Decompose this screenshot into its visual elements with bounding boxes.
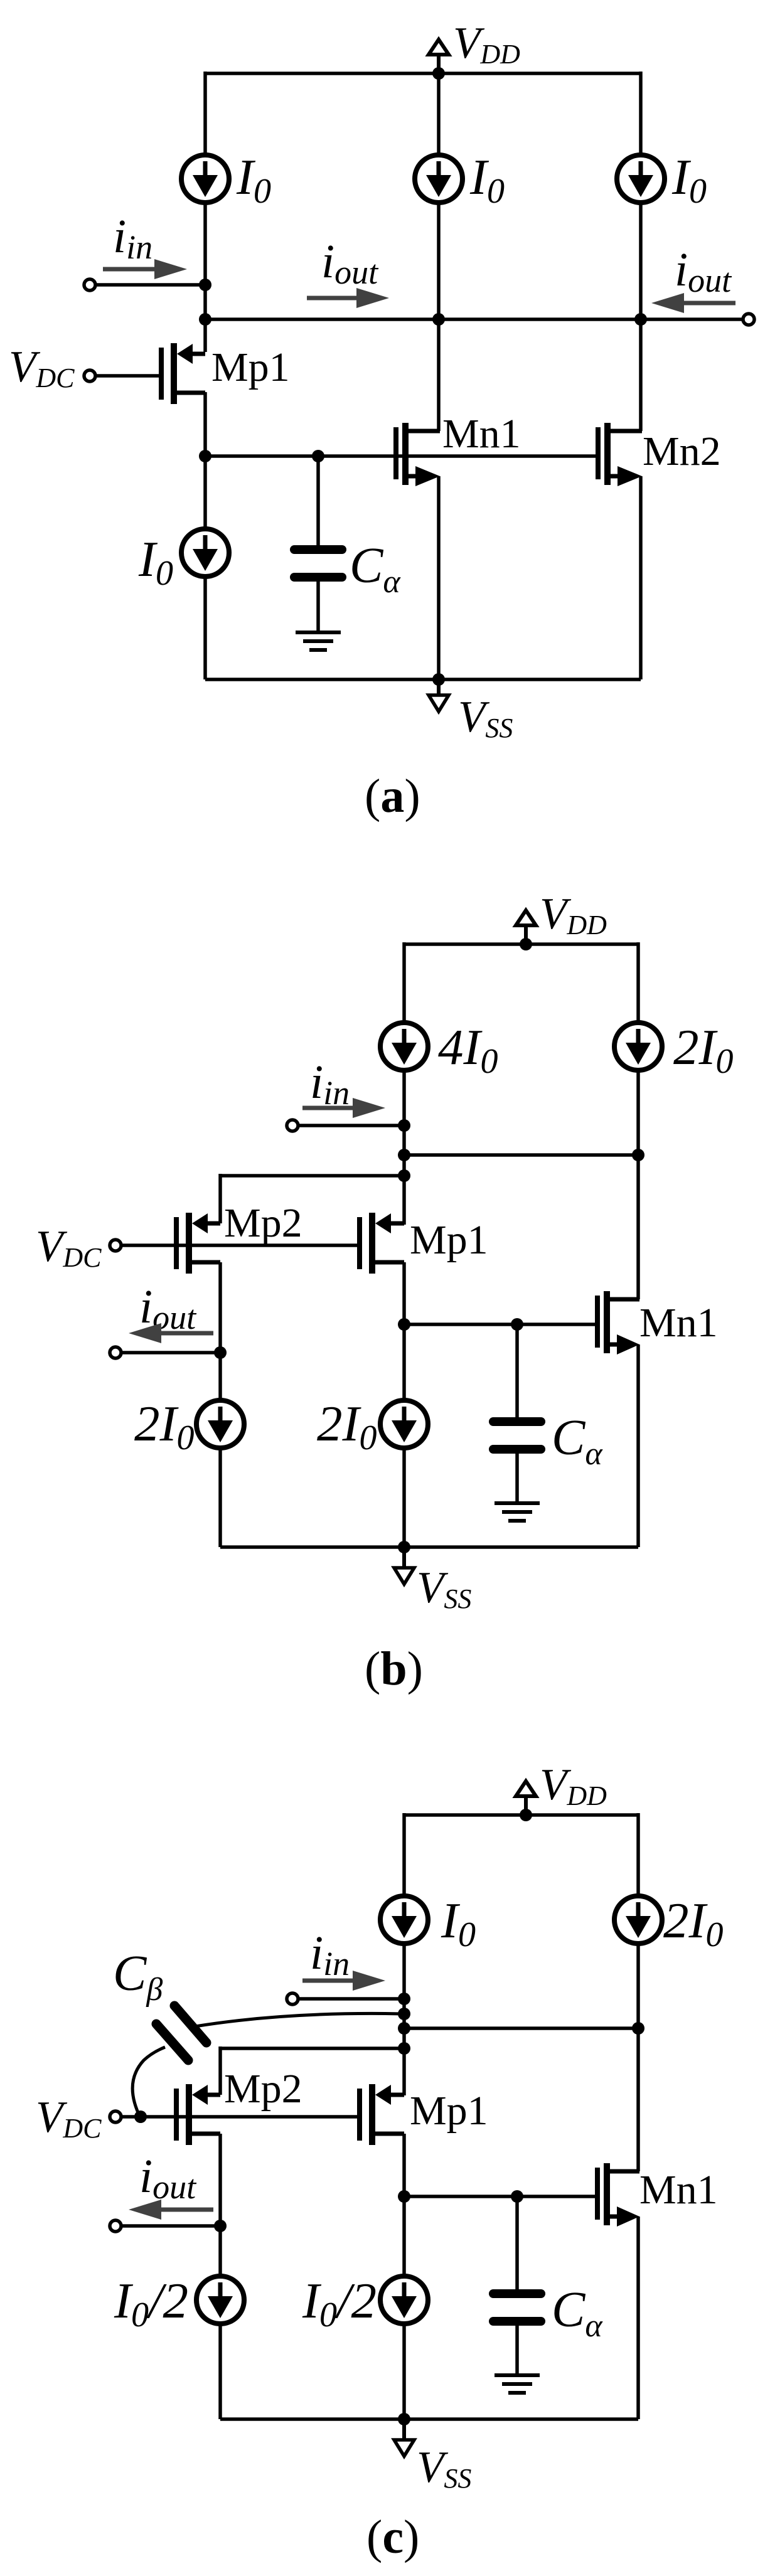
svg-text:Cα: Cα [350, 538, 401, 600]
node input (a) [199, 279, 211, 291]
wire Mp1 drain down (c) [402, 2134, 406, 2276]
wire C_beta to node (c) [195, 2013, 404, 2026]
svg-text:Cα: Cα [552, 1410, 603, 1472]
current arrow i_out mid (a) [307, 288, 389, 308]
wire gate row (a) [205, 454, 596, 458]
node VDC (c) [134, 2110, 147, 2123]
input terminal (c) [287, 1993, 298, 2004]
output terminal (c) [110, 2220, 121, 2232]
node VSS (a) [432, 673, 445, 686]
transistor Mn1 (a) [396, 423, 440, 486]
svg-text:I0/2: I0/2 [114, 2272, 188, 2334]
current source I0 bottom (a) [181, 529, 229, 577]
wire input (a) [95, 283, 205, 287]
label Mn1 (b) [639, 1300, 718, 1346]
svg-text:iout: iout [139, 2150, 197, 2206]
wire C_beta curve to VDC (c) [132, 2047, 165, 2118]
current source 2I0 (c) [614, 1896, 662, 1944]
power rail VDD (c) [404, 1813, 638, 1817]
wire Mp1 drain down (b) [402, 1262, 406, 1400]
node upper (c) [398, 2022, 410, 2035]
svg-text:VSS: VSS [417, 1563, 471, 1614]
wire output (a) [641, 317, 743, 321]
label Mp1 (a) [211, 344, 290, 390]
label i_out (c) [139, 2150, 197, 2206]
svg-text:VDD: VDD [540, 1760, 607, 1811]
caption (a) [365, 770, 420, 822]
svg-text:I0: I0 [469, 149, 505, 211]
label Mn2 (a) [643, 428, 721, 474]
svg-text:VDC: VDC [36, 1222, 102, 1273]
label i_in (c) [310, 1927, 350, 1983]
label i_in (a) [113, 210, 152, 266]
power rail VSS (a) [205, 678, 641, 681]
wire right rail mid (b) [636, 1070, 640, 1299]
wire VDC to gates (c) [121, 2115, 357, 2119]
svg-text:2I0: 2I0 [673, 1019, 733, 1081]
current source I0 top-mid (a) [415, 155, 463, 203]
wire Mp2 branch (b) [220, 1174, 404, 1178]
wire Mp2 drain down (b) [218, 1262, 222, 1400]
transistor Mp2 (b) [176, 1213, 220, 1274]
output terminal (a) [743, 314, 754, 325]
terminal VDC (a) [84, 370, 95, 381]
wire mirror row (a) [205, 317, 641, 321]
label i_out (b) [139, 1280, 197, 1336]
wire left rail lower (a) [203, 392, 207, 529]
label C_alpha (a) [350, 538, 401, 600]
wire gate row (b) [404, 1323, 597, 1326]
wire left rail upper (b) [402, 942, 406, 1023]
terminal VDC (b) [110, 1240, 121, 1251]
wire left rail upper (a) [203, 72, 207, 155]
svg-text:4I0: 4I0 [438, 1019, 498, 1081]
current arrow i_in (c) [302, 1971, 385, 1991]
label C_beta (c) [113, 1946, 163, 2008]
wire Mp2 drain down (c) [218, 2134, 222, 2276]
wire Mn2 source down (a) [639, 476, 643, 679]
svg-text:Mn1: Mn1 [639, 2167, 718, 2213]
wire VDC to gates (b) [121, 1243, 357, 1247]
wire mid rail upper (a) [437, 72, 441, 155]
node right (b) [632, 1149, 644, 1161]
label i_out right (a) [675, 243, 732, 299]
transistor Mn2 (a) [598, 423, 642, 486]
VDD symbol (a) [429, 40, 449, 80]
current arrow i_in (b) [302, 1098, 385, 1118]
svg-text:iin: iin [310, 1927, 350, 1983]
wire left rail bottom (a) [203, 577, 207, 679]
wire mid branch bottom (c) [402, 2324, 406, 2419]
svg-text:I0: I0 [441, 1892, 476, 1954]
wire mid branch bottom (b) [402, 1448, 406, 1547]
power rail VSS (b) [220, 1545, 638, 1549]
wire input (c) [298, 1997, 404, 2001]
label 4I0 (b) [438, 1019, 498, 1081]
svg-text:I0/2: I0/2 [302, 2272, 377, 2334]
label I0 (c) [441, 1892, 476, 1954]
power rail VDD (b) [404, 942, 638, 946]
wire to right rail (b) [404, 1153, 638, 1157]
wire Mn1 source down (c) [636, 2217, 640, 2419]
current source 4I0 (b) [380, 1023, 428, 1070]
svg-text:2I0: 2I0 [134, 1395, 194, 1457]
wire main rail (b) [402, 1070, 406, 1225]
current arrow i_out (c) [129, 2200, 213, 2220]
power rail VDD (a) [205, 72, 641, 75]
current source I0 top-left (a) [181, 155, 229, 203]
svg-text:VSS: VSS [417, 2443, 471, 2494]
wire cap bottom (b) [515, 1454, 519, 1503]
svg-text:Cβ: Cβ [113, 1946, 163, 2008]
node VSS (c) [398, 2413, 410, 2425]
svg-text:VDD: VDD [540, 890, 607, 940]
VSS symbol (c) [394, 2419, 414, 2456]
VSS symbol (b) [394, 1547, 414, 1584]
capacitor C_alpha (b) [493, 1422, 541, 1449]
svg-text:2I0: 2I0 [317, 1395, 377, 1457]
label I0 top-left (a) [236, 149, 271, 211]
node output (b) [214, 1346, 227, 1359]
label i_in (b) [310, 1056, 350, 1112]
current arrow i_in (a) [103, 259, 187, 279]
wire output (b) [121, 1351, 220, 1355]
wire right rail upper (c) [636, 1813, 640, 1896]
label i_out mid (a) [321, 235, 379, 291]
node output (c) [214, 2220, 227, 2232]
caption (c) [366, 2511, 419, 2563]
node right (c) [632, 2022, 644, 2035]
wire Mp2 source up (c) [218, 2046, 222, 2095]
svg-text:Mn1: Mn1 [639, 1300, 718, 1346]
transistor Mp1 (c) [360, 2084, 404, 2145]
label Mn1 (c) [639, 2167, 718, 2213]
node input (c) [398, 1993, 410, 2005]
wire cap top (a) [316, 456, 320, 545]
wire cap bottom (a) [316, 582, 320, 632]
label VSS (b) [417, 1563, 471, 1614]
wire right rail mid (c) [636, 1944, 640, 2171]
VDD symbol (b) [516, 910, 536, 950]
current source I0 (c) [380, 1896, 428, 1944]
label VSS (a) [458, 693, 513, 743]
node input (b) [398, 1119, 410, 1132]
svg-text:Mp2: Mp2 [224, 2066, 302, 2112]
wire left rail mid (a) [203, 203, 207, 352]
label I0 top-right (a) [671, 149, 707, 211]
svg-text:Mp2: Mp2 [224, 1200, 302, 1246]
wire Mn1 source down (b) [636, 1344, 640, 1547]
wire Mp2 source up (b) [218, 1174, 222, 1223]
svg-text:(a): (a) [365, 770, 420, 822]
wire right rail mid (a) [639, 203, 643, 431]
svg-text:iout: iout [675, 243, 732, 299]
capacitor C_alpha (c) [493, 2294, 541, 2321]
svg-text:(b): (b) [365, 1642, 423, 1695]
label I0 top-mid (a) [469, 149, 505, 211]
node gate row cap (c) [511, 2190, 523, 2203]
wire cap top (c) [515, 2196, 519, 2289]
current arrow i_out (b) [129, 1323, 213, 1343]
transistor Mp1 (b) [360, 1213, 404, 1274]
current source 2I0 top (b) [614, 1023, 662, 1070]
svg-text:VDC: VDC [9, 343, 75, 393]
ground (c) [495, 2375, 540, 2393]
label Mp2 (c) [224, 2066, 302, 2112]
label VDD (b) [540, 890, 607, 940]
wire left branch bottom (c) [218, 2324, 222, 2419]
svg-text:iout: iout [321, 235, 379, 291]
svg-text:Mp1: Mp1 [211, 344, 290, 390]
wire right rail upper (b) [636, 942, 640, 1023]
ground (a) [296, 632, 341, 650]
wire cap top (b) [515, 1324, 519, 1417]
svg-text:Cα: Cα [552, 2282, 603, 2344]
svg-text:2I0: 2I0 [663, 1892, 723, 1954]
transistor Mp1 (a) [161, 343, 205, 404]
svg-text:VSS: VSS [458, 693, 513, 743]
label 2I0 (c) [663, 1892, 723, 1954]
svg-text:I0: I0 [138, 531, 173, 593]
label I0 bottom (a) [138, 531, 173, 593]
wire right rail upper (a) [639, 72, 643, 155]
label VDD (a) [453, 19, 520, 70]
current source I0 top-right (a) [617, 155, 665, 203]
wire left branch bottom (b) [218, 1448, 222, 1547]
label VSS (c) [417, 2443, 471, 2494]
power rail VSS (c) [220, 2417, 638, 2421]
label VDC (b) [36, 1222, 102, 1273]
ground (b) [495, 1503, 540, 1521]
label I0/2 left (c) [114, 2272, 188, 2334]
node mirror mid (a) [432, 313, 445, 326]
svg-text:(c): (c) [366, 2511, 419, 2563]
label 2I0 bottom-left (b) [134, 1395, 194, 1457]
transistor Mn1 (b) [597, 1291, 639, 1355]
label 2I0 bottom-mid (b) [317, 1395, 377, 1457]
label Mp1 (c) [410, 2088, 488, 2134]
current arrow i_out right (a) [651, 293, 735, 313]
transistor Mn1 (c) [597, 2163, 639, 2227]
input terminal (b) [287, 1120, 298, 1131]
node gate row cap (b) [511, 1318, 523, 1331]
label Mn1 (a) [442, 411, 521, 457]
node Mp2 branch (b) [398, 1169, 410, 1182]
label I0/2 mid (c) [302, 2272, 377, 2334]
caption (b) [365, 1642, 423, 1695]
output terminal (b) [110, 1347, 121, 1358]
wire Mn1 source down (a) [437, 476, 441, 679]
current source I0/2 mid (c) [380, 2276, 428, 2324]
node mirror right (a) [634, 313, 647, 326]
terminal VDC (c) [110, 2111, 121, 2122]
node mirror left (a) [199, 313, 211, 326]
label Mp2 (b) [224, 1200, 302, 1246]
VDD symbol (c) [516, 1781, 536, 1821]
wire mid rail to Mn1 drain (a) [437, 203, 441, 431]
node gate row (b) [398, 1318, 410, 1331]
wire cap bottom (c) [515, 2326, 519, 2375]
current source I0/2 left (c) [196, 2276, 244, 2324]
node gate row (c) [398, 2190, 410, 2203]
label Mp1 (b) [410, 1217, 488, 1263]
current source 2I0 bottom-mid (b) [380, 1400, 428, 1448]
wire VDC to gate (a) [95, 374, 160, 378]
svg-text:iin: iin [310, 1056, 350, 1112]
svg-text:I0: I0 [236, 149, 271, 211]
transistor Mp2 (c) [176, 2084, 220, 2145]
node C_beta (c) [398, 2008, 410, 2020]
label VDC (c) [36, 2093, 102, 2144]
wire left rail upper (c) [402, 1813, 406, 1896]
wire Mp2 branch (c) [220, 2046, 404, 2050]
node gate row cap (a) [312, 450, 324, 462]
wire gate row (c) [404, 2195, 597, 2198]
wire output (c) [121, 2224, 220, 2228]
label VDC (a) [9, 343, 75, 393]
svg-text:iin: iin [113, 210, 152, 266]
node Mp2 branch (c) [398, 2042, 410, 2055]
label C_alpha (b) [552, 1410, 603, 1472]
label C_alpha (c) [552, 2282, 603, 2344]
capacitor C_beta (c) [156, 2006, 206, 2060]
current source 2I0 bottom-left (b) [196, 1400, 244, 1448]
svg-text:Mp1: Mp1 [410, 1217, 488, 1263]
svg-text:Mp1: Mp1 [410, 2088, 488, 2134]
wire input (b) [298, 1124, 404, 1127]
input terminal (a) [84, 279, 95, 290]
wire main rail (c) [402, 1944, 406, 2095]
capacitor C_alpha (a) [294, 550, 342, 577]
wire to right rail (c) [404, 2026, 638, 2030]
svg-text:VDC: VDC [36, 2093, 102, 2144]
svg-text:Mn2: Mn2 [643, 428, 721, 474]
node upper (b) [398, 1149, 410, 1161]
VSS symbol (a) [429, 679, 449, 711]
svg-text:Mn1: Mn1 [442, 411, 521, 457]
node VSS (b) [398, 1541, 410, 1553]
svg-text:VDD: VDD [453, 19, 520, 70]
svg-text:I0: I0 [671, 149, 707, 211]
node gate row left (a) [199, 450, 211, 462]
label 2I0 top (b) [673, 1019, 733, 1081]
label VDD (c) [540, 1760, 607, 1811]
